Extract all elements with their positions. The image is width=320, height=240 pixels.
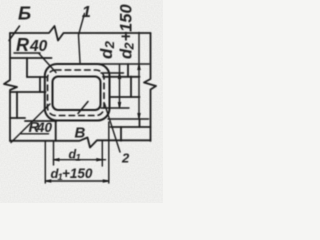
brick course line y58 left [10,57,52,59]
arrowhead d2+150 bottom [137,113,141,119]
extension line y108 right [101,107,129,109]
extension line y64 right [98,63,149,65]
brick course line y97 right [110,96,140,98]
brick course line y92 left [10,91,46,93]
brick course line y77 left [27,76,47,78]
view mark slash for В [78,102,88,114]
wall outline left edge with break zigzag [4,33,17,141]
arrowhead d2 top [118,73,122,79]
brick joint x139.5 [139,119,141,127]
arrowhead d1 left [54,158,60,162]
opening middle contour (dashed) [48,70,105,116]
extension line x53.5 bottom [53,141,55,165]
R40 bottom leader slash [11,104,50,143]
arrowhead d1+150 left [45,179,51,183]
leader for label 2 [105,104,121,153]
R40 top leader [39,53,57,73]
brick joint x17 [16,92,18,118]
brick course line y118 left [10,117,25,119]
dimension line d2+150 [138,33,140,120]
dimension line d1+150 [45,180,109,182]
arrowhead d2+150 top [137,64,141,70]
label d2+150 (rotated) [118,4,137,59]
R40 bottom shelf line [21,133,49,135]
wall outline right edge with break zigzag [144,33,156,141]
opening inner contour (d face) [53,77,101,111]
opening outer contour (d+150 face) [45,64,110,121]
scan grain overlay [0,0,163,203]
wall outline top edge with break zigzag [10,26,151,41]
brick joint x27 [26,58,28,77]
dimension line d2 [119,64,121,108]
extension line x102.3 bottom [101,141,103,166]
brick course line y121 (R40 box top) [25,120,57,122]
leader for label 1 [79,14,85,63]
extension line y119 right [108,118,149,120]
extension line y73 right [101,72,124,74]
arrowhead d1 right [96,158,102,162]
arrowhead d1+150 right [103,179,109,183]
extension line x108.8 bottom [108,122,110,183]
brick course line y127 right [111,126,151,128]
view mark slash for Б [9,26,20,41]
brick course line y76.5 right [103,76,140,78]
R40 top shelf line [14,52,40,54]
brick joint x55.7 (R40 box right) [55,121,57,141]
wall outline bottom edge with break zigzag [10,138,151,148]
brick joint x121 [120,127,122,141]
label d2 (rotated) [97,40,117,59]
extension line x45.3 bottom [44,141,46,183]
brick joint x40 [39,77,41,92]
arrowhead d2 bottom [118,102,122,108]
brick joint x128 [127,64,129,77]
brick joint x131 [130,77,132,98]
dimension line d1 [54,159,106,161]
